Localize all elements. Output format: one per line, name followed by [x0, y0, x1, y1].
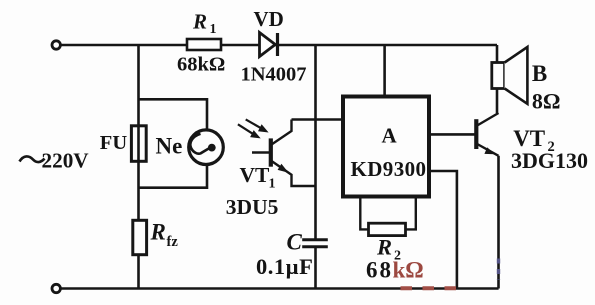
svg-text:1N4007: 1N4007	[241, 64, 307, 86]
svg-text:VT: VT	[240, 163, 271, 187]
svg-text:C: C	[287, 230, 303, 255]
svg-text:VD: VD	[254, 7, 284, 31]
svg-text:R: R	[150, 220, 166, 245]
svg-text:FU: FU	[100, 132, 128, 154]
svg-text:fz: fz	[167, 234, 179, 250]
svg-text:B: B	[532, 61, 547, 86]
svg-text:8Ω: 8Ω	[532, 89, 561, 114]
svg-text:3DU5: 3DU5	[226, 195, 279, 219]
svg-text:0.1µF: 0.1µF	[256, 254, 313, 279]
svg-text:1: 1	[269, 177, 276, 192]
svg-text:kΩ: kΩ	[393, 258, 424, 283]
svg-text:220V: 220V	[42, 149, 90, 173]
svg-text:68kΩ: 68kΩ	[177, 54, 225, 76]
svg-text:R: R	[376, 235, 392, 260]
svg-text:KD9300: KD9300	[351, 157, 427, 181]
svg-text:A: A	[382, 124, 398, 148]
svg-text:3DG130: 3DG130	[511, 148, 588, 173]
svg-text:68: 68	[366, 258, 393, 283]
svg-text:1: 1	[210, 22, 217, 37]
svg-text:R: R	[192, 10, 207, 34]
svg-text:Ne: Ne	[156, 134, 183, 159]
